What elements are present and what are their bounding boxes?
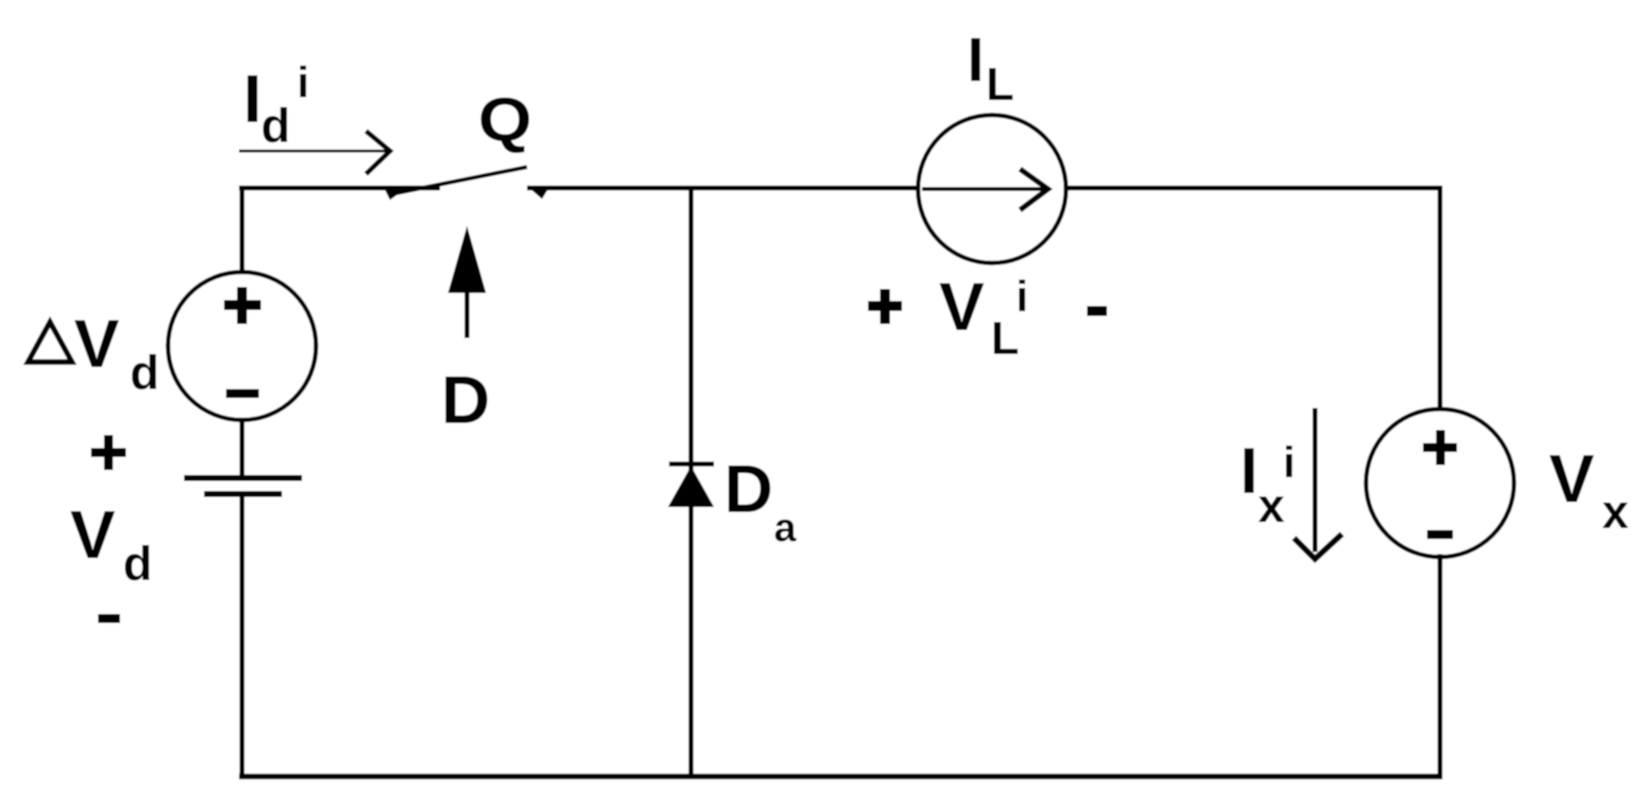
svg-text:x: x (1258, 480, 1285, 533)
svg-text:V: V (1549, 441, 1594, 517)
svg-text:x: x (1602, 486, 1629, 539)
svg-text:d: d (123, 538, 152, 591)
svg-text:i: i (1283, 438, 1295, 487)
plus label (Vd polarity) (91, 435, 126, 470)
switch Q blade (392, 167, 527, 194)
label VL with superscript i (939, 269, 1028, 364)
wire top-left horizontal segment (239, 186, 440, 191)
svg-text:i: i (1016, 272, 1028, 321)
current label Id with superscript i (243, 58, 309, 153)
voltage source dVd circle (168, 272, 316, 420)
wire bottom horizontal (239, 774, 1443, 780)
wire left vertical bottom (240, 495, 245, 779)
battery Vd bottom plate (204, 491, 282, 497)
minus inside dVd (226, 389, 259, 398)
plus sign (VL polarity) (868, 289, 902, 324)
label Ix with superscript i (1240, 434, 1295, 533)
wire right vertical lower (1438, 554, 1443, 779)
label delta-Vd (28, 306, 159, 400)
plus inside dVd (224, 287, 261, 324)
switch right contact arrowhead (527, 186, 550, 199)
svg-text:I: I (1240, 434, 1258, 507)
label Da (724, 451, 797, 550)
minus inside Vx (1427, 530, 1453, 539)
svg-text:V: V (74, 306, 119, 382)
diode Da triangle (668, 466, 714, 507)
voltage source Vx circle (1366, 409, 1514, 557)
current arrow Ix (downward) (1294, 408, 1342, 559)
svg-text:I: I (243, 61, 262, 137)
plus inside Vx (1423, 430, 1457, 465)
svg-text:V: V (939, 269, 984, 345)
svg-text:d: d (261, 100, 290, 153)
duty-cycle arrow D (upward) (448, 226, 486, 338)
wire middle vertical (diode branch) (689, 188, 694, 776)
svg-text:I: I (967, 26, 984, 95)
svg-text:Q: Q (478, 86, 532, 155)
wire top middle segment (527, 186, 919, 191)
switch left contact arrowhead (383, 186, 405, 200)
label IL (967, 26, 1014, 110)
label Vd (70, 497, 152, 591)
svg-text:i: i (297, 58, 309, 107)
svg-text:d: d (130, 347, 159, 400)
svg-text:D: D (724, 451, 773, 527)
svg-text:L: L (986, 58, 1014, 110)
current source IL circle (918, 115, 1066, 263)
minus label (Vd polarity) (98, 614, 120, 623)
svg-text:a: a (774, 506, 797, 550)
wire right vertical upper (1438, 186, 1443, 411)
battery Vd top plate (184, 475, 302, 481)
minus sign (VL polarity) (1087, 306, 1107, 316)
label Vx (1549, 441, 1629, 539)
IL internal arrow (922, 169, 1048, 210)
wire between dVd source and battery (240, 419, 245, 477)
svg-text:D: D (441, 362, 490, 438)
wire left vertical top (240, 186, 245, 274)
diode Da cathode bar (669, 462, 714, 467)
svg-text:V: V (70, 497, 115, 573)
current arrow Id (239, 131, 390, 174)
svg-text:L: L (991, 312, 1019, 364)
wire top right segment (1066, 186, 1443, 191)
